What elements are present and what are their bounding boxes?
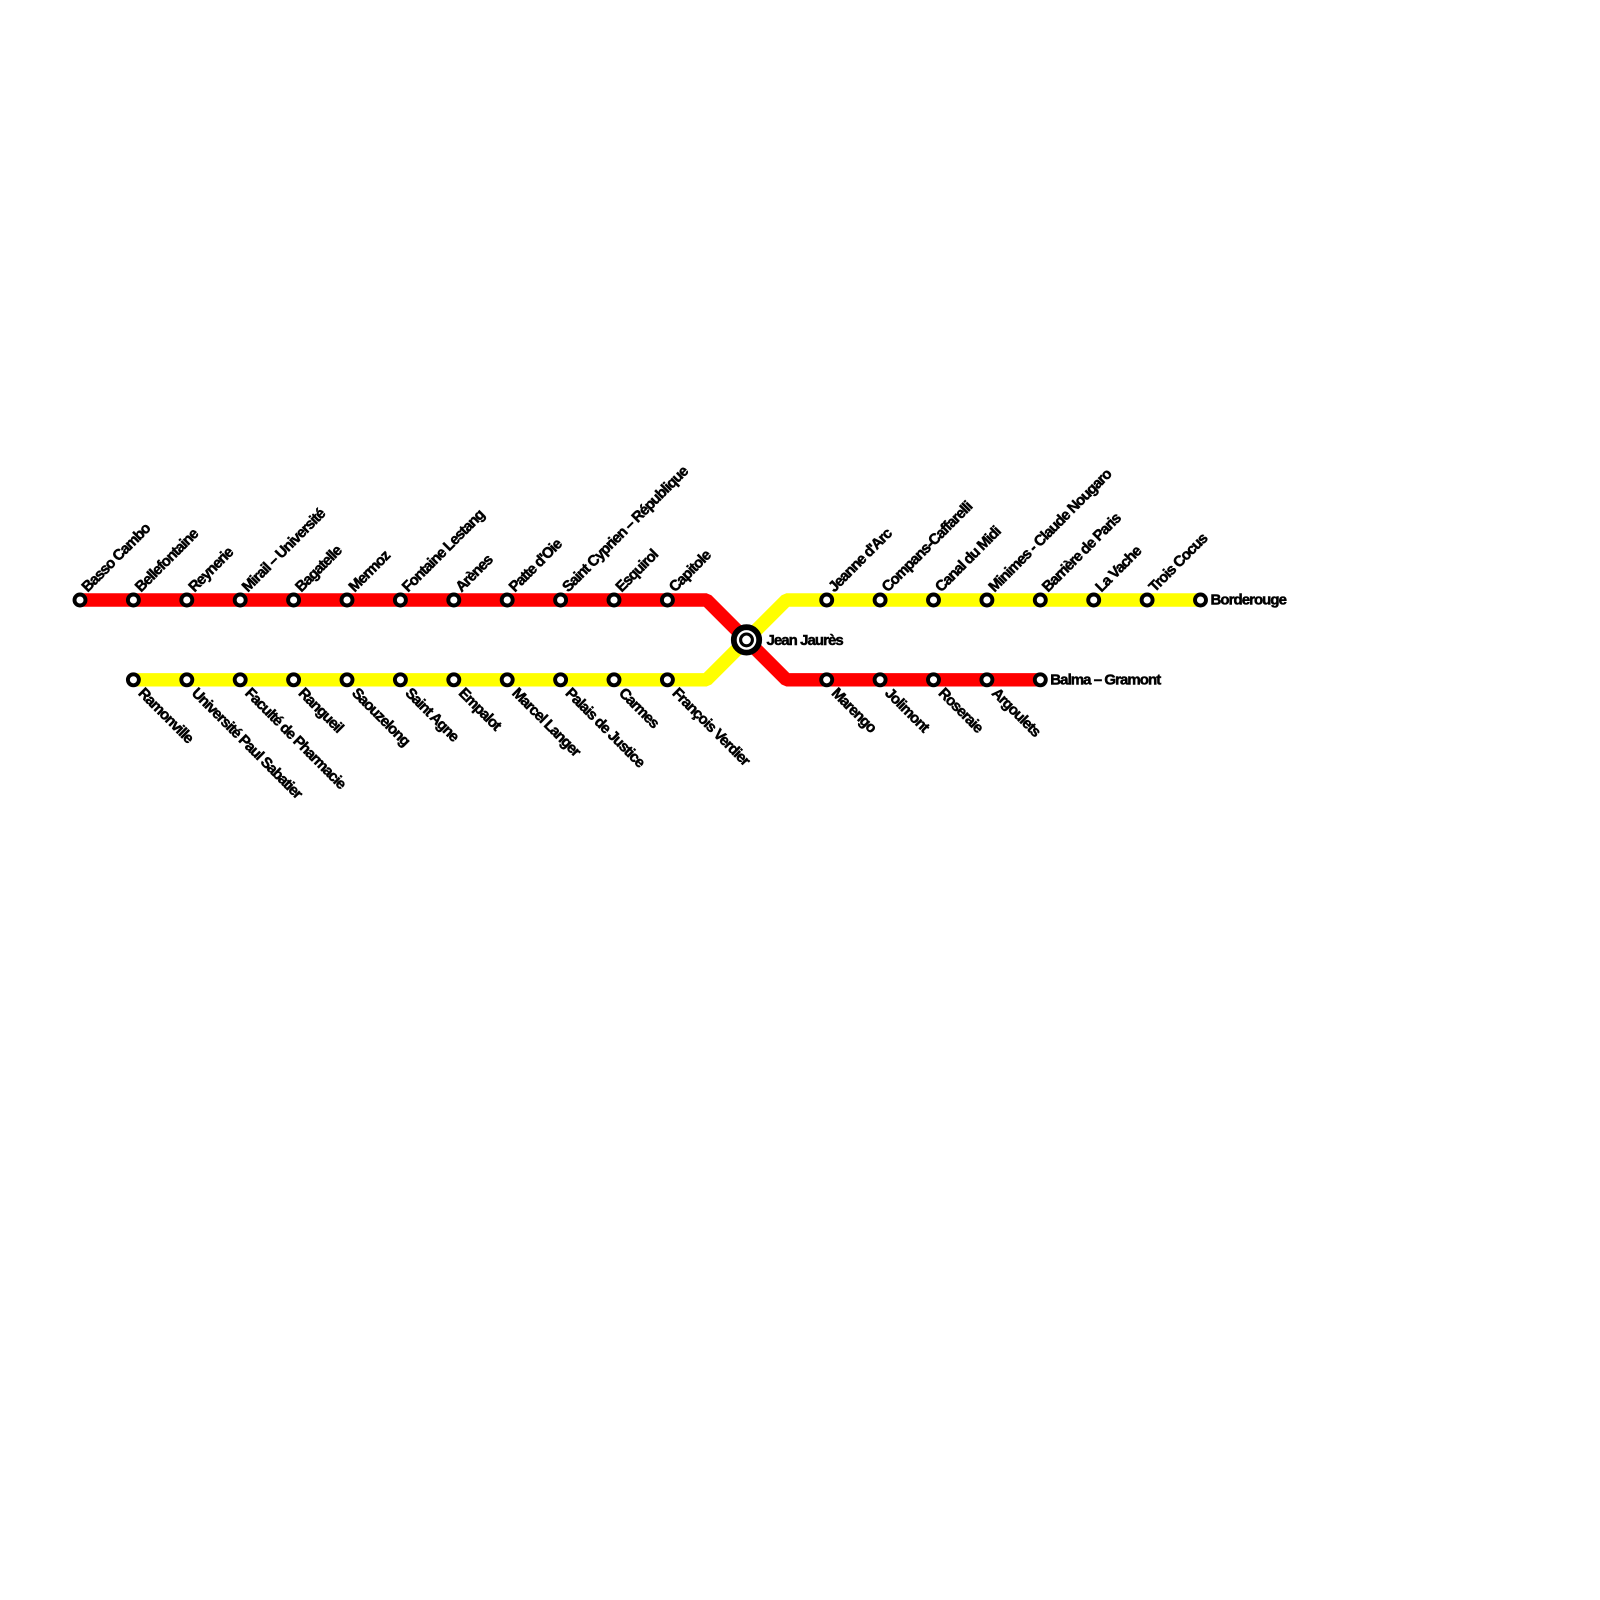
label Marengo — [828, 685, 880, 737]
label Argoulets — [988, 685, 1044, 741]
station Jolimont — [875, 674, 886, 685]
station Empalot — [448, 674, 459, 685]
label Fontaine Lestang — [399, 506, 489, 596]
label Carmes — [615, 685, 662, 732]
label Barrière de Paris — [1039, 510, 1125, 596]
station Capitole — [662, 595, 673, 606]
station Balma – Gramont — [1035, 674, 1046, 685]
station Saint Agne — [395, 674, 406, 685]
label Jolimont — [881, 685, 933, 737]
label Jeanne d'Arc — [825, 525, 896, 596]
station Saouzelong — [342, 674, 353, 685]
label Reynerie — [185, 544, 237, 596]
label Palais de Justice — [562, 685, 649, 772]
station Carmes — [609, 674, 620, 685]
label Saint Agne — [402, 685, 463, 746]
station Arènes — [448, 595, 459, 606]
label Esquirol — [612, 546, 662, 596]
station Université Paul Sabatier — [181, 674, 192, 685]
label Patte d'Oie — [506, 536, 566, 596]
label Capitole — [666, 547, 715, 596]
station Argoulets — [981, 674, 992, 685]
station Barrière de Paris — [1035, 595, 1046, 606]
station Bagatelle — [288, 595, 299, 606]
label Mermoz — [345, 547, 393, 595]
label Saouzelong — [348, 685, 413, 750]
label François Verdier — [669, 685, 754, 770]
station Minimes - Claude Nougaro — [981, 595, 992, 606]
station Roseraie — [928, 674, 939, 685]
label Université Paul Sabatier — [188, 685, 306, 803]
label Marcel Langer — [508, 685, 584, 761]
station Borderouge — [1195, 595, 1206, 606]
label Canal du Midi — [932, 523, 1005, 596]
label Mirail – Université — [239, 505, 329, 595]
station La Vache — [1088, 595, 1099, 606]
station Marcel Langer — [502, 674, 513, 685]
station Saint Cyprien – République — [555, 595, 566, 606]
label Basso Cambo — [78, 520, 154, 596]
interchange Jean Jaures inner ring — [741, 634, 753, 646]
label Empalot — [455, 685, 505, 735]
station Fontaine Lestang — [395, 595, 406, 606]
station Faculté de Pharmacie — [235, 674, 246, 685]
station Mirail – Université — [235, 595, 246, 606]
station Trois Cocus — [1142, 595, 1153, 606]
station Reynerie — [181, 595, 192, 606]
label Compans-Caffarelli — [879, 498, 977, 596]
label Bagatelle — [292, 542, 346, 596]
label Trois Cocus — [1146, 530, 1212, 596]
station Basso Cambo — [75, 595, 86, 606]
Line A (red) route Basso Cambo to Balma-Gramont — [80, 600, 1040, 680]
svg-text:Borderouge: Borderouge — [1211, 592, 1287, 609]
station Marengo — [821, 674, 832, 685]
station Compans-Caffarelli — [875, 595, 886, 606]
station Mermoz — [342, 595, 353, 606]
label Minimes - Claude Nougaro — [985, 465, 1115, 595]
svg-text:Jean Jaurès: Jean Jaurès — [767, 632, 844, 649]
label La Vache — [1092, 543, 1145, 596]
Line B (yellow) route Ramonville to Borderouge — [133, 600, 1200, 680]
station Palais de Justice — [555, 674, 566, 685]
station Esquirol — [609, 595, 620, 606]
station Jeanne d'Arc — [821, 595, 832, 606]
label Saint Cyprien – République — [559, 463, 692, 596]
label Bellefontaine — [132, 525, 202, 595]
label Faculté de Pharmacie — [241, 685, 349, 793]
label Ramonville — [135, 685, 197, 747]
label Rangueil — [295, 685, 347, 737]
label Roseraie — [935, 685, 987, 737]
label Arènes — [452, 551, 496, 595]
station Bellefontaine — [128, 595, 139, 606]
svg-text:Balma – Gramont: Balma – Gramont — [1050, 671, 1161, 688]
station François Verdier — [662, 674, 673, 685]
station Patte d'Oie — [502, 595, 513, 606]
station Canal du Midi — [928, 595, 939, 606]
station Ramonville — [128, 674, 139, 685]
interchange Jean Jaures outer ring — [734, 627, 759, 652]
station Rangueil — [288, 674, 299, 685]
